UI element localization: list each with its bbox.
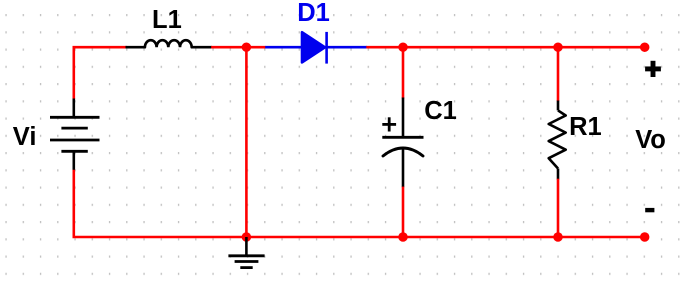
label C1 polarity + xyxy=(382,117,396,131)
svg-text:Vo: Vo xyxy=(635,126,666,154)
svg-text:R1: R1 xyxy=(569,113,602,141)
junction at C1 bottom xyxy=(398,232,408,242)
label: output + sign xyxy=(645,61,661,77)
resistor R1 xyxy=(549,101,566,180)
wire: R1 bottom lead to bottom rail xyxy=(557,179,560,237)
svg-text:D1: D1 xyxy=(297,0,330,27)
wire: node B down to C1 top lead xyxy=(402,47,405,98)
battery Vi xyxy=(50,99,100,171)
capacitor C1 (polarized) xyxy=(382,98,423,188)
junction node B xyxy=(398,42,408,52)
wire: battery negative down and bottom rail to output - xyxy=(74,170,645,237)
inductor L1 xyxy=(126,40,212,47)
label: output - sign xyxy=(645,208,654,212)
svg-text:Vi: Vi xyxy=(13,123,37,151)
svg-text:C1: C1 xyxy=(424,97,457,125)
wire: L1 to D1 anode xyxy=(211,46,265,49)
junction at ground node xyxy=(242,232,252,242)
junction node A xyxy=(242,42,252,52)
terminal dot: output - xyxy=(640,232,650,242)
junction node C xyxy=(553,42,563,52)
svg-text:L1: L1 xyxy=(152,6,182,34)
diode D1 xyxy=(265,32,367,64)
wire: Vi positive lead up and right to L1 (top-left corner) xyxy=(74,47,127,99)
wire: node C down to R1 xyxy=(557,47,560,101)
wire: node A down to ground junction xyxy=(245,47,248,237)
wire: D1 cathode to output + terminal xyxy=(366,46,644,49)
ground xyxy=(228,237,264,268)
terminal dot: output + xyxy=(640,42,650,52)
junction at R1 bottom xyxy=(553,232,563,242)
wire: C1 bottom lead to bottom rail xyxy=(402,187,405,237)
